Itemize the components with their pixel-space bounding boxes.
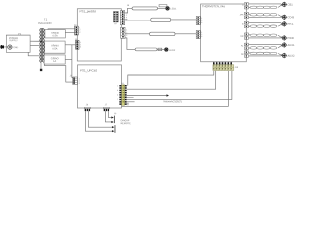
svg-text:GR: GR [240,36,244,38]
svg-text:0.5A: 0.5A [52,48,57,51]
svg-text:LED2: LED2 [169,49,176,52]
right row 2 chain end wire to speaker [278,15,282,18]
row A wire to resistor [158,7,166,9]
right row 4 edge connector [244,33,248,39]
wire F3 output joining bus [65,58,72,60]
row A lamp LED1 [166,7,177,11]
bus wire upper (J4 to strip) [128,71,214,86]
pin number specks [79,12,203,101]
row A cable symbol [132,7,158,10]
right row 5 straight wire [249,44,283,46]
svg-text:1: 1 [126,29,127,31]
network long wire to strip [127,71,232,100]
connector P1 box [6,32,30,52]
right row 5 speaker symbol [282,42,287,47]
J7 target label [114,113,131,125]
svg-text:AUX2: AUX2 [288,54,296,58]
wire bus down from F2 output to lower connector [71,45,74,78]
right row 3 straight wire [249,23,283,26]
svg-text:5: 5 [117,95,118,97]
svg-text:3: 3 [79,83,80,85]
right row 2 chain lead wire [249,14,251,15]
secondary tap to F3 [43,58,45,60]
right row 3 speaker symbol [282,21,287,26]
right row 5 twisted pair [250,47,277,50]
svg-text:AUX1: AUX1 [288,43,296,47]
connector on THERMSTCN left edge upper [196,17,200,25]
row C wire from connector [125,33,149,35]
connector J3 on PS1_UPC left edge [69,75,77,84]
right row 6 twisted pair [250,52,277,55]
J6 wires with arrows [85,111,115,133]
svg-text:GND: GND [13,47,18,49]
wire F2 output to connector J? [65,44,75,46]
svg-text:PH.1: PH.1 [288,22,294,26]
svg-text:3: 3 [201,22,202,24]
header J4 on PS1_UPC right edge [119,83,126,105]
right row 6 chain lead wire [249,52,251,53]
row D tap wire down [125,38,135,50]
power plug (black) [0,45,4,49]
svg-text:0.5A: 0.5A [53,35,58,38]
right row 1 speaker symbol [282,2,287,7]
right row 5 edge connector [244,43,248,49]
svg-text:JPA: JPA [240,13,244,16]
network wire with arrow [127,94,169,96]
right row 1 chain end wire to speaker [278,4,282,7]
right row 1 twisted pair [250,6,277,9]
row D wire to resistor [157,48,164,50]
right row 6 straight wire [249,54,283,56]
row D cable symbol [135,48,157,51]
svg-text:7: 7 [117,99,118,101]
connector J2 on PS1_pwb3d left edge [74,25,78,35]
right row 2 edge connector [244,12,248,18]
row C cable symbol [150,32,176,36]
wire plug to P1 box [4,46,8,48]
right row 5 chain end wire to speaker [278,45,282,48]
transformer core [41,28,43,62]
pin strip J10 below THERMSTCN [213,62,239,71]
AC inlet symbol (circle with pins) [8,45,19,49]
right row 4 twisted pair [250,34,277,37]
row B cable symbol [151,18,171,21]
transformer tail terminator blob [40,69,42,71]
fuse box F3 (1A) [44,55,65,64]
row D resistor [158,48,162,51]
svg-text:PS1_UPC40: PS1_UPC40 [80,69,97,73]
right row 6 chain end wire to speaker [278,53,282,55]
wire secondary top tap to connector J2 [48,28,75,31]
svg-text:SUPPLY: SUPPLY [9,40,18,42]
transformer bottom tail wire [40,62,42,69]
right row 2 speaker symbol [282,15,287,20]
row D lamp LED2 [165,48,176,52]
right row 3 chain lead wire [249,25,251,27]
svg-text:LED1: LED1 [170,8,177,11]
fuse box F2 (0.5A) [45,41,65,53]
secondary tap to F1 [44,32,45,34]
J7 wires with arrows [105,111,114,123]
right row 5 chain lead wire [249,47,251,49]
svg-text:PWR: PWR [288,36,294,40]
right row 4 speaker symbol [282,35,287,40]
row B wire from connector [125,19,151,21]
svg-text:2: 2 [126,32,127,34]
fuse box F1 (0.5A) [45,30,65,38]
row B wire to right box [171,19,196,21]
row C wire to right box [175,33,196,35]
right row 2 straight wire [249,16,283,18]
svg-text:1A: 1A [53,60,56,63]
svg-text:P1: P1 [18,32,22,36]
svg-text:PS1_pwb3d: PS1_pwb3d [80,9,97,13]
right row 1 straight wire [249,4,283,6]
wire F3 bottom pin to lower connector [44,64,72,82]
connector J6 below PS1_UPC [84,104,90,111]
svg-text:CD-B: CD-B [288,15,295,19]
wire strip col6 down-left [121,71,228,107]
svg-text:4: 4 [126,19,127,21]
short stub wires from J4 [127,97,135,101]
svg-text:REMOTE: REMOTE [121,122,132,125]
right row 3 chain end wire to speaker [278,24,282,26]
right row 1 chain lead wire [249,6,251,8]
transformer T1 secondary coil [42,28,45,62]
svg-text:3: 3 [201,36,202,38]
right row 6 speaker symbol [282,53,287,58]
svg-text:3: 3 [80,46,81,48]
svg-text:1: 1 [117,85,118,87]
right row 2 twisted pair [250,14,277,17]
box PS1_pwb3d [77,9,121,61]
svg-text:3: 3 [126,35,127,37]
row A wire from connector up [125,8,132,13]
wire P1 to transformer primary (lower) [30,45,40,47]
right row 6 edge connector [244,51,248,57]
edge ladder connector J5 on PS1_pwb3d right edge [120,5,130,38]
connector on THERMSTCN left edge lower [196,31,200,39]
svg-text:3: 3 [117,90,118,92]
svg-text:THERMSTCN_04a: THERMSTCN_04a [202,4,225,8]
svg-text:8VA AUDIO: 8VA AUDIO [38,21,51,25]
svg-text:3: 3 [79,32,80,34]
internal pin header U1 inside PS1_pwb3d [113,11,118,25]
wire P1 to transformer primary (upper) [30,40,40,42]
right row 4 chain lead wire [249,34,251,35]
wire F1 output to connector J2 [65,32,74,34]
svg-text:CB1: CB1 [288,2,294,6]
box THERMSTCN [201,4,247,62]
wire P1 bottom tap [28,52,39,56]
right row 3 twisted pair [250,25,277,28]
right row 1 edge connector [244,3,248,9]
svg-text:cd: cd [114,23,116,25]
junction dot primary [40,40,42,42]
bus wire lower (J4 to strip) [127,71,216,89]
right row 3 edge connector [244,21,248,27]
J4 bottom stub wires [127,102,129,104]
box PS1_UPC [77,65,121,108]
secondary tap to F2 [44,44,45,46]
connector J7 below PS1_UPC [103,104,109,111]
right row 4 straight wire [249,37,283,38]
transformer T1 label [38,18,51,25]
connector J? on PS1_pwb3d left edge lower [75,39,79,49]
transformer T1 primary coil [39,28,42,62]
right row 4 chain end wire to speaker [278,35,282,38]
svg-text:Network(2)(3)(?): Network(2)(3)(?) [163,100,182,103]
row A resistor [159,5,167,7]
